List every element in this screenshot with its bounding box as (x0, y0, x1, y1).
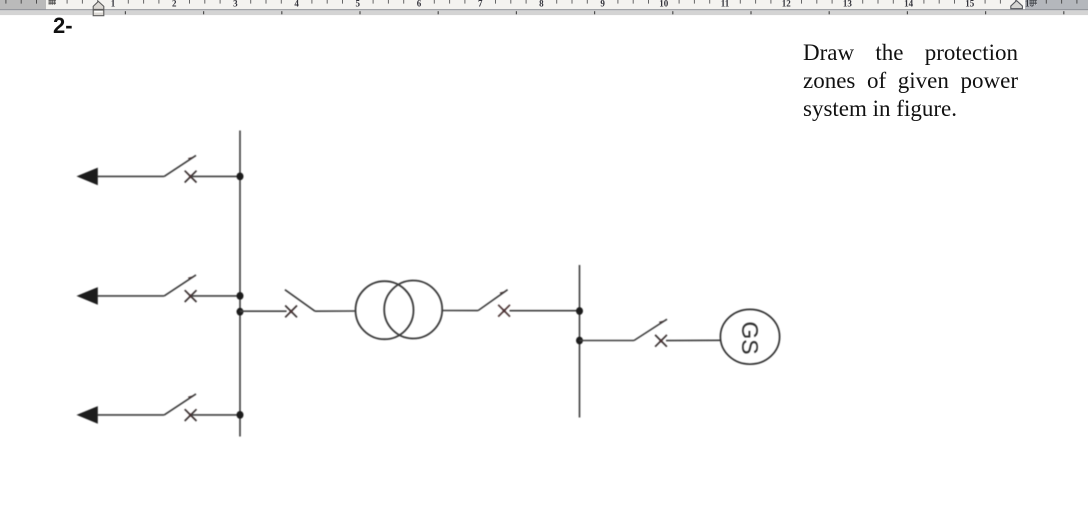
svg-text:14: 14 (904, 0, 914, 8)
svg-text:8: 8 (539, 0, 544, 8)
svg-text:2: 2 (172, 0, 177, 8)
svg-text:15: 15 (965, 0, 975, 8)
svg-text:6: 6 (417, 0, 422, 8)
svg-text:7: 7 (478, 0, 483, 8)
svg-text:5: 5 (356, 0, 361, 8)
svg-text:13: 13 (843, 0, 853, 8)
svg-text:11: 11 (721, 0, 730, 8)
svg-text:3: 3 (233, 0, 238, 8)
svg-text:12: 12 (782, 0, 792, 8)
svg-text:9: 9 (600, 0, 605, 8)
svg-text:10: 10 (659, 0, 669, 8)
svg-text:4: 4 (294, 0, 299, 8)
svg-text:1: 1 (111, 0, 116, 8)
svg-text:GS: GS (737, 321, 763, 354)
